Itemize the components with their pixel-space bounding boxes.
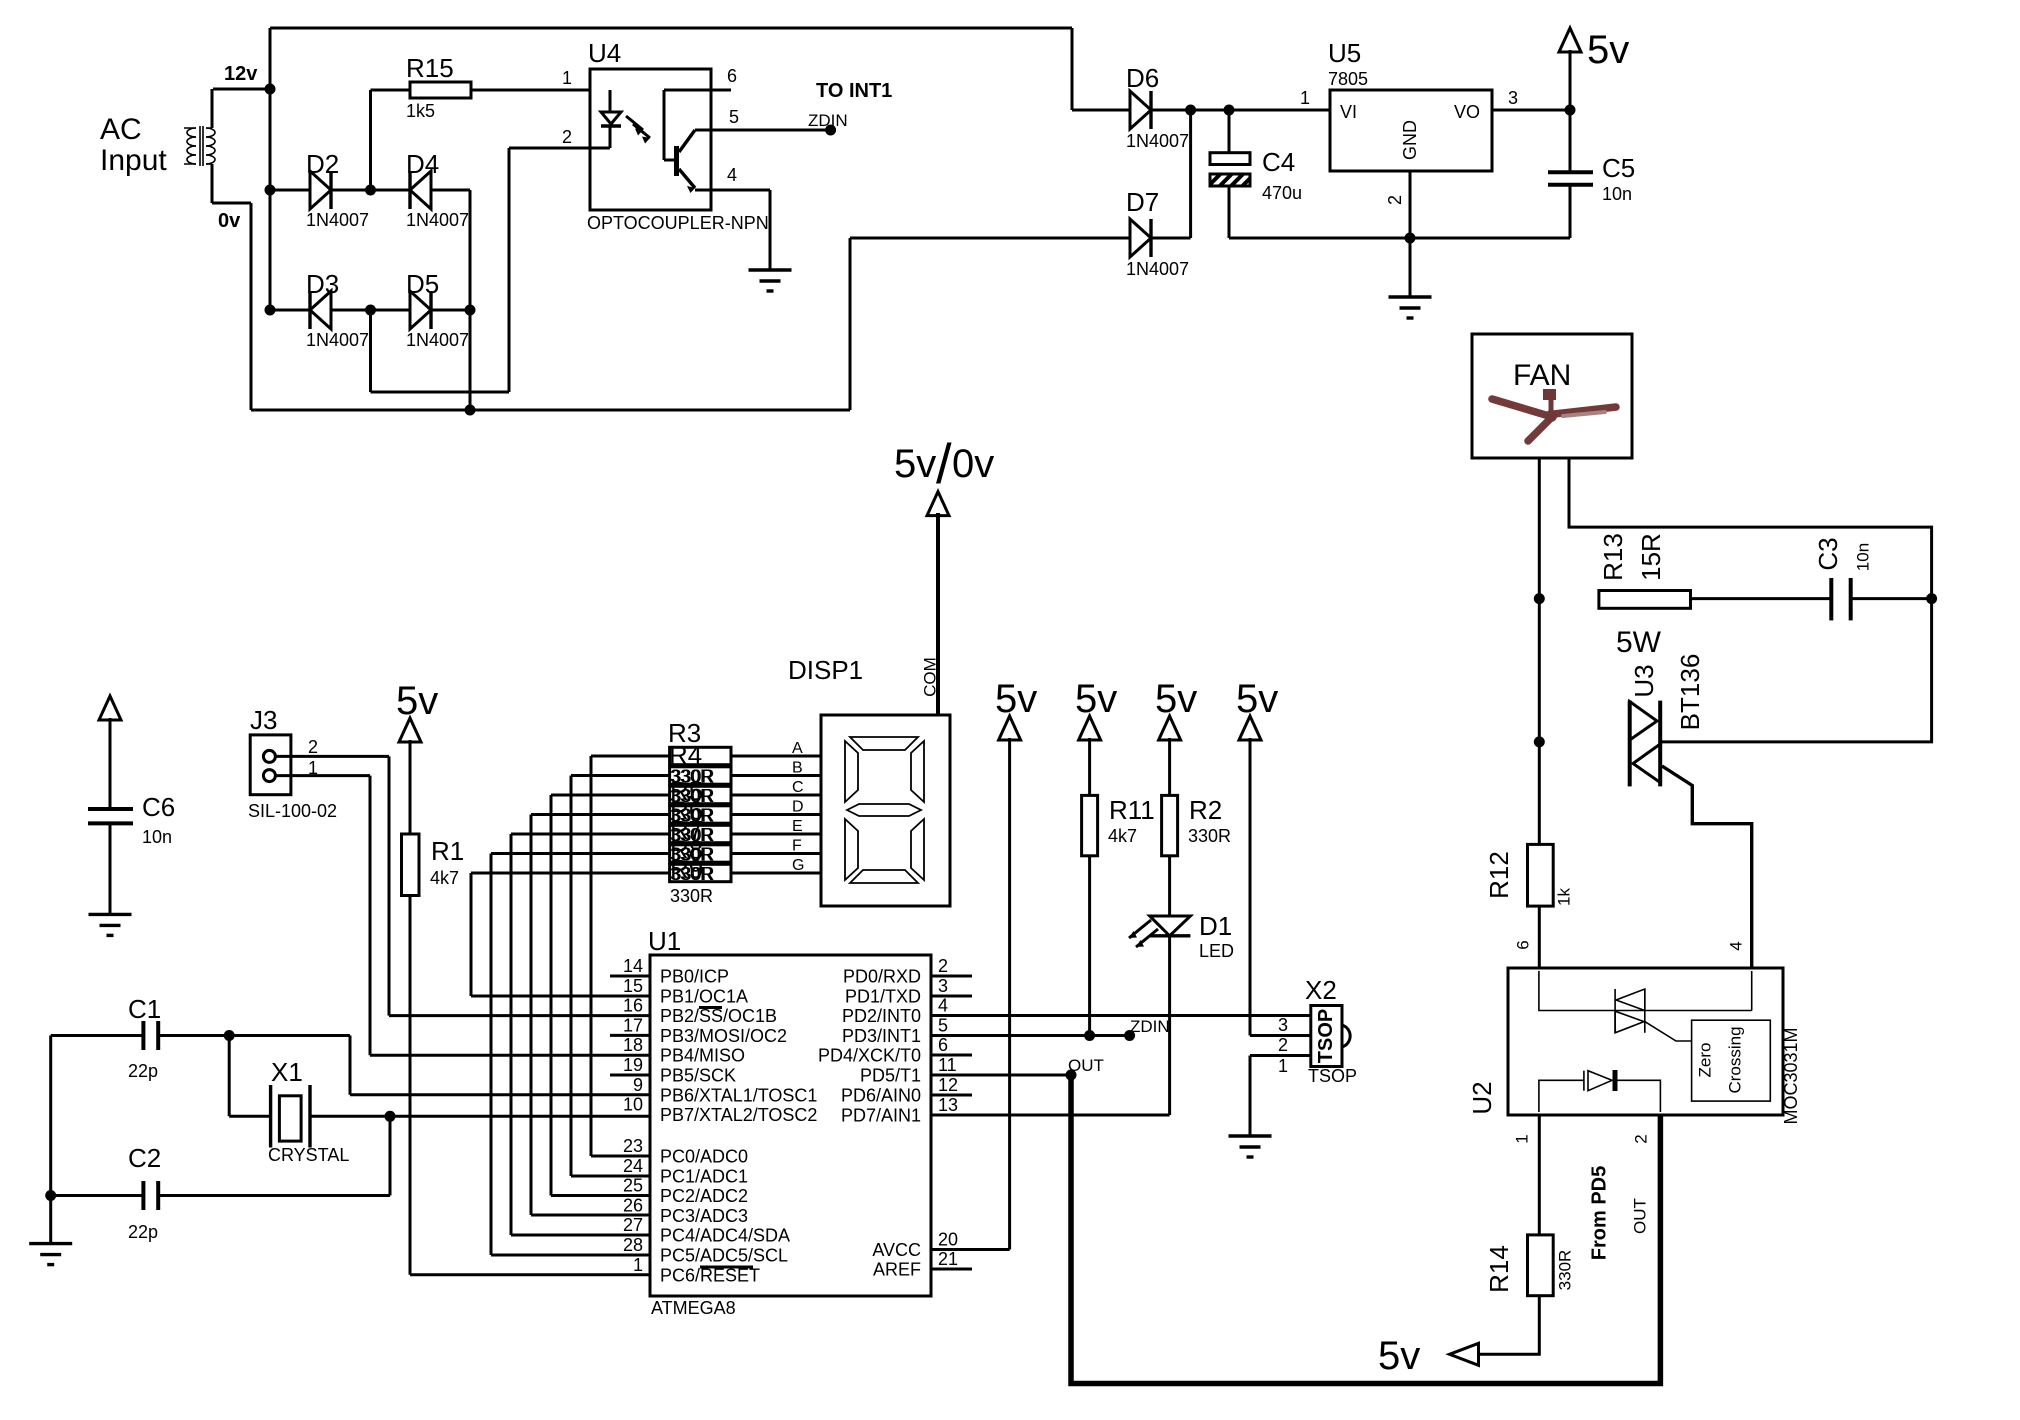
svg-text:/: / — [936, 432, 952, 495]
svg-text:R2: R2 — [1189, 795, 1222, 825]
svg-text:TSOP: TSOP — [1315, 1009, 1337, 1063]
svg-text:330R: 330R — [670, 886, 713, 906]
svg-text:C1: C1 — [128, 994, 161, 1024]
svg-text:R13: R13 — [1598, 533, 1628, 581]
svg-text:PC5/ADC5/SCL: PC5/ADC5/SCL — [660, 1246, 788, 1266]
svg-text:PB1/OC1A: PB1/OC1A — [660, 986, 748, 1006]
svg-text:Input: Input — [100, 144, 167, 177]
svg-text:D1: D1 — [1199, 911, 1232, 941]
svg-text:X2: X2 — [1305, 975, 1337, 1005]
svg-text:5v: 5v — [1075, 677, 1117, 721]
svg-text:2: 2 — [938, 956, 948, 976]
svg-text:ZDIN: ZDIN — [808, 111, 848, 130]
svg-text:1: 1 — [1512, 1134, 1531, 1143]
svg-text:10: 10 — [623, 1095, 643, 1115]
svg-text:R9: R9 — [670, 854, 703, 884]
svg-text:U4: U4 — [588, 38, 621, 68]
svg-text:4: 4 — [1726, 941, 1745, 950]
svg-text:3: 3 — [1278, 1015, 1288, 1035]
svg-text:VI: VI — [1340, 102, 1357, 122]
svg-text:R12: R12 — [1484, 851, 1514, 899]
svg-text:DISP1: DISP1 — [788, 655, 863, 685]
svg-text:5v: 5v — [1236, 677, 1278, 721]
svg-text:CRYSTAL: CRYSTAL — [268, 1145, 349, 1165]
svg-text:E: E — [792, 818, 803, 835]
svg-text:C6: C6 — [142, 792, 175, 822]
svg-text:PD7/AIN1: PD7/AIN1 — [841, 1106, 921, 1126]
svg-text:D5: D5 — [406, 269, 439, 299]
svg-text:PD6/AIN0: PD6/AIN0 — [841, 1086, 921, 1106]
svg-text:D7: D7 — [1126, 187, 1159, 217]
svg-text:1N4007: 1N4007 — [1126, 259, 1189, 279]
svg-text:PD3/INT1: PD3/INT1 — [842, 1026, 921, 1046]
svg-text:13: 13 — [938, 1095, 958, 1115]
svg-text:PD4/XCK/T0: PD4/XCK/T0 — [818, 1046, 921, 1066]
svg-text:VO: VO — [1454, 102, 1480, 122]
svg-text:1N4007: 1N4007 — [406, 330, 469, 350]
svg-text:R15: R15 — [406, 53, 454, 83]
svg-text:PB5/SCK: PB5/SCK — [660, 1066, 736, 1086]
svg-text:17: 17 — [623, 1015, 643, 1035]
svg-text:U3: U3 — [1629, 664, 1659, 697]
svg-text:4k7: 4k7 — [1108, 826, 1137, 846]
svg-text:6: 6 — [727, 66, 737, 86]
svg-text:12: 12 — [938, 1075, 958, 1095]
svg-text:23: 23 — [623, 1136, 643, 1156]
svg-text:R14: R14 — [1484, 1245, 1514, 1293]
svg-text:5v: 5v — [396, 679, 438, 723]
svg-text:From PD5: From PD5 — [1588, 1166, 1610, 1260]
svg-text:U2: U2 — [1467, 1081, 1497, 1114]
svg-text:0v: 0v — [218, 210, 241, 232]
svg-text:1N4007: 1N4007 — [406, 210, 469, 230]
svg-text:2: 2 — [1278, 1035, 1288, 1055]
svg-text:0v: 0v — [952, 442, 994, 486]
svg-text:1k5: 1k5 — [406, 101, 435, 121]
svg-text:4: 4 — [938, 996, 948, 1016]
svg-text:B: B — [792, 760, 803, 777]
svg-text:9: 9 — [633, 1075, 643, 1095]
svg-text:COM: COM — [920, 657, 939, 697]
svg-text:Zero: Zero — [1695, 1043, 1714, 1078]
svg-text:D3: D3 — [306, 269, 339, 299]
svg-text:5v: 5v — [1378, 1334, 1420, 1378]
svg-text:U5: U5 — [1328, 38, 1361, 68]
svg-text:ZDIN: ZDIN — [1130, 1017, 1170, 1036]
svg-text:PD5/T1: PD5/T1 — [860, 1066, 921, 1086]
svg-text:F: F — [792, 838, 802, 855]
svg-text:PB0/ICP: PB0/ICP — [660, 967, 729, 987]
svg-text:TSOP: TSOP — [1308, 1066, 1357, 1086]
svg-text:Crossing: Crossing — [1725, 1026, 1744, 1093]
svg-text:5v: 5v — [894, 442, 936, 486]
svg-text:PD2/INT0: PD2/INT0 — [842, 1006, 921, 1026]
svg-text:1: 1 — [633, 1255, 643, 1275]
svg-text:BT136: BT136 — [1675, 654, 1705, 731]
svg-text:OUT: OUT — [1068, 1056, 1104, 1075]
svg-text:PC0/ADC0: PC0/ADC0 — [660, 1147, 748, 1167]
svg-text:5v: 5v — [995, 677, 1037, 721]
svg-text:2: 2 — [562, 127, 572, 147]
svg-text:R1: R1 — [431, 836, 464, 866]
svg-text:5W: 5W — [1616, 626, 1662, 659]
svg-text:26: 26 — [623, 1195, 643, 1215]
svg-text:1N4007: 1N4007 — [306, 330, 369, 350]
svg-text:D2: D2 — [306, 149, 339, 179]
svg-text:PC4/ADC4/SDA: PC4/ADC4/SDA — [660, 1226, 790, 1246]
svg-text:R11: R11 — [1109, 795, 1155, 825]
svg-text:4k7: 4k7 — [430, 868, 459, 888]
svg-text:470u: 470u — [1262, 183, 1302, 203]
svg-text:1N4007: 1N4007 — [1126, 131, 1189, 151]
svg-text:1N4007: 1N4007 — [306, 210, 369, 230]
svg-text:D4: D4 — [406, 149, 439, 179]
svg-text:C: C — [792, 779, 804, 796]
svg-text:24: 24 — [623, 1156, 643, 1176]
svg-text:U1: U1 — [648, 926, 681, 956]
svg-text:16: 16 — [623, 996, 643, 1016]
svg-text:1: 1 — [1278, 1056, 1288, 1076]
svg-text:G: G — [792, 857, 804, 874]
svg-text:25: 25 — [623, 1176, 643, 1196]
svg-text:22p: 22p — [128, 1061, 158, 1081]
svg-text:6: 6 — [1513, 940, 1532, 949]
svg-text:PC3/ADC3: PC3/ADC3 — [660, 1206, 748, 1226]
svg-text:20: 20 — [938, 1230, 958, 1250]
svg-text:4: 4 — [727, 165, 737, 185]
svg-text:ATMEGA8: ATMEGA8 — [651, 1298, 736, 1318]
svg-text:C5: C5 — [1602, 153, 1635, 183]
svg-text:22p: 22p — [128, 1222, 158, 1242]
svg-text:X1: X1 — [271, 1057, 303, 1087]
svg-text:TO INT1: TO INT1 — [816, 80, 892, 102]
svg-text:27: 27 — [623, 1215, 643, 1235]
svg-text:12v: 12v — [224, 63, 258, 85]
svg-text:AC: AC — [100, 113, 142, 146]
svg-text:21: 21 — [938, 1249, 958, 1269]
svg-text:10n: 10n — [142, 827, 172, 847]
svg-text:FAN: FAN — [1513, 359, 1571, 392]
svg-text:5v: 5v — [1155, 677, 1197, 721]
svg-text:R4: R4 — [669, 740, 702, 770]
svg-text:2: 2 — [308, 737, 318, 757]
svg-text:330R: 330R — [1188, 826, 1231, 846]
svg-text:A: A — [792, 740, 803, 757]
svg-text:5: 5 — [729, 107, 739, 127]
svg-text:PB6/XTAL1/TOSC1: PB6/XTAL1/TOSC1 — [660, 1085, 817, 1105]
svg-text:1: 1 — [1300, 88, 1310, 108]
svg-text:PD0/RXD: PD0/RXD — [843, 967, 921, 987]
svg-text:AREF: AREF — [873, 1260, 921, 1280]
svg-text:10n: 10n — [1853, 543, 1872, 571]
svg-text:D6: D6 — [1126, 63, 1159, 93]
svg-text:15: 15 — [623, 976, 643, 996]
svg-text:C4: C4 — [1262, 147, 1295, 177]
svg-text:18: 18 — [623, 1035, 643, 1055]
svg-text:2: 2 — [1631, 1134, 1650, 1143]
svg-text:PB4/MISO: PB4/MISO — [660, 1046, 745, 1066]
svg-text:PB2/SS/OC1B: PB2/SS/OC1B — [660, 1006, 777, 1026]
svg-text:PD1/TXD: PD1/TXD — [845, 987, 921, 1007]
svg-text:AVCC: AVCC — [872, 1240, 921, 1260]
svg-text:14: 14 — [623, 956, 643, 976]
svg-text:15R: 15R — [1636, 533, 1666, 581]
svg-text:GND: GND — [1400, 120, 1420, 160]
svg-text:PB3/MOSI/OC2: PB3/MOSI/OC2 — [660, 1026, 787, 1046]
svg-text:MOC3031M: MOC3031M — [1781, 1027, 1801, 1124]
svg-text:7805: 7805 — [1328, 69, 1368, 89]
svg-text:LED: LED — [1199, 941, 1234, 961]
svg-text:19: 19 — [623, 1055, 643, 1075]
svg-text:10n: 10n — [1602, 184, 1632, 204]
svg-text:3: 3 — [1508, 88, 1518, 108]
svg-text:OPTOCOUPLER-NPN: OPTOCOUPLER-NPN — [587, 213, 769, 233]
svg-text:2: 2 — [1385, 195, 1405, 205]
svg-text:C3: C3 — [1813, 537, 1843, 570]
svg-text:3: 3 — [938, 976, 948, 996]
svg-text:5v: 5v — [1587, 28, 1629, 72]
svg-text:D: D — [792, 799, 804, 816]
svg-text:6: 6 — [938, 1035, 948, 1055]
svg-text:5: 5 — [938, 1016, 948, 1036]
svg-text:1: 1 — [562, 68, 572, 88]
svg-text:11: 11 — [938, 1055, 957, 1075]
svg-text:PB7/XTAL2/TOSC2: PB7/XTAL2/TOSC2 — [660, 1105, 817, 1125]
svg-text:C2: C2 — [128, 1143, 161, 1173]
svg-text:OUT: OUT — [1630, 1198, 1649, 1234]
svg-text:28: 28 — [623, 1235, 643, 1255]
svg-text:1k: 1k — [1554, 888, 1573, 906]
svg-text:330R: 330R — [1555, 1250, 1574, 1291]
svg-text:PC2/ADC2: PC2/ADC2 — [660, 1186, 748, 1206]
svg-text:SIL-100-02: SIL-100-02 — [248, 801, 337, 821]
svg-text:PC1/ADC1: PC1/ADC1 — [660, 1166, 748, 1186]
svg-text:1: 1 — [308, 758, 318, 778]
svg-text:J3: J3 — [250, 705, 277, 735]
